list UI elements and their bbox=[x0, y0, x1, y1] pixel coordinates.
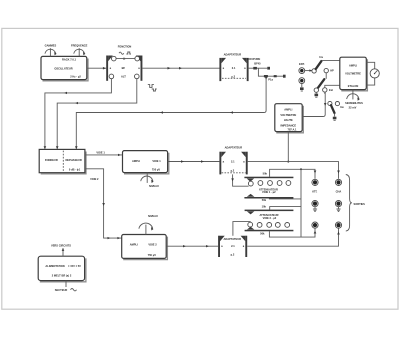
box AMPLI VOIE 1 shadow bbox=[124, 153, 169, 174]
switch S1 Inv bbox=[312, 55, 340, 73]
wire FONCTION output to ADAPTATEUR U3 bbox=[142, 67, 220, 70]
switch S3 Inv bbox=[328, 101, 345, 113]
connector block ADAPTATEUR U3 bbox=[219, 52, 248, 81]
attenuator 1 labels bbox=[259, 172, 278, 194]
switch circle HP bbox=[324, 68, 334, 78]
knob FREQUENCE bbox=[71, 43, 88, 56]
svg-text:± 15V ± 5V: ± 15V ± 5V bbox=[68, 264, 81, 268]
wire FONCTION BL to FONDEUR input 1 bbox=[44, 79, 112, 149]
wire AMPLI VOIE 2 output bbox=[166, 245, 218, 247]
attenuator 1 bar bbox=[244, 177, 293, 179]
knob NIVEAU 2 bbox=[139, 214, 158, 235]
connector ENT ground side bbox=[299, 78, 305, 84]
svg-text:VOIE 1: VOIE 1 bbox=[96, 150, 105, 154]
svg-text:ETALON: ETALON bbox=[348, 84, 359, 88]
ground below S2 bbox=[315, 92, 319, 97]
svg-text:VERS CIRCUITS: VERS CIRCUITS bbox=[51, 243, 71, 247]
svg-text:OSCILLATEUR: OSCILLATEUR bbox=[54, 66, 72, 70]
box AMPLI VOIE 2 bbox=[122, 235, 167, 259]
brace SORTIES bbox=[346, 175, 365, 232]
svg-text:10k: 10k bbox=[262, 204, 267, 208]
capacitor coupling COUPURE BF bbox=[247, 57, 270, 70]
output connector CHA row3 bbox=[335, 222, 341, 228]
wire haute impedance output to Ext bbox=[302, 92, 326, 116]
svg-text:ADAPTATEUR: ADAPTATEUR bbox=[224, 52, 242, 56]
attenuator 2 labels bbox=[259, 213, 278, 220]
svg-text:P1a: P1a bbox=[268, 78, 273, 82]
svg-text:HAUTE: HAUTE bbox=[284, 118, 293, 122]
attenuator 2 input triangle bbox=[247, 211, 255, 214]
knob GAMMES bbox=[45, 43, 57, 56]
svg-text:2 MELT BR (a) 2: 2 MELT BR (a) 2 bbox=[52, 274, 72, 278]
wire coupling branch to FONDEUR input 3 bbox=[75, 76, 266, 149]
attenuator 1 input triangle bbox=[247, 178, 255, 181]
attenuator 1 terminals bbox=[248, 181, 290, 186]
svg-text:SECTEUR: SECTEUR bbox=[55, 288, 68, 292]
svg-text:FONDEUR: FONDEUR bbox=[45, 158, 58, 162]
svg-text:FREQUENCE: FREQUENCE bbox=[71, 43, 88, 47]
attenuator 1 lower bar bbox=[244, 197, 293, 199]
svg-text:0 dB - ϕ1: 0 dB - ϕ1 bbox=[69, 168, 81, 172]
output connector CHA row2 bbox=[335, 201, 341, 207]
svg-text:NIVEAU: NIVEAU bbox=[148, 214, 158, 218]
svg-text:VOIE 2 - µ2: VOIE 2 - µ2 bbox=[263, 216, 277, 220]
svg-text:2.1: 2.1 bbox=[232, 66, 236, 70]
svg-text:IMPEDANCE: IMPEDANCE bbox=[281, 124, 297, 128]
svg-text:750 µV: 750 µV bbox=[152, 168, 161, 172]
box FONDEUR DEPHASEUR bbox=[39, 149, 85, 172]
wire branch to lower coupling bbox=[258, 68, 283, 80]
svg-text:AMPLI: AMPLI bbox=[132, 159, 140, 163]
svg-text:ATT.: ATT. bbox=[312, 190, 318, 194]
svg-text:ALIMENTATION: ALIMENTATION bbox=[45, 264, 64, 268]
wire haute impedance to node A bbox=[287, 132, 289, 162]
svg-text:Inv: Inv bbox=[319, 55, 323, 59]
attenuator 2 lower bar bbox=[245, 230, 294, 232]
connector block ADAPTATEUR U1 bbox=[219, 146, 247, 175]
wire ADAPTATEUR U2 to attenuator 2 input bbox=[233, 222, 250, 236]
svg-text:50k: 50k bbox=[262, 198, 267, 202]
svg-text:BF45: BF45 bbox=[254, 62, 261, 66]
svg-text:VOIE 1 - µ2: VOIE 1 - µ2 bbox=[262, 190, 276, 194]
box AMPLI VOIE 1 bbox=[123, 151, 168, 173]
svg-text:22 mV: 22 mV bbox=[349, 105, 357, 109]
svg-text:ADAPTATEUR: ADAPTATEUR bbox=[225, 146, 243, 150]
wire ENT to switch S1 bbox=[305, 69, 312, 71]
wire VOIE 2 bbox=[85, 169, 122, 240]
svg-text:AMPLI: AMPLI bbox=[349, 64, 357, 68]
wire ADAPTATEUR U1 output to CHA connector bbox=[248, 162, 340, 179]
svg-text:2.1: 2.1 bbox=[231, 244, 235, 248]
svg-text:Ext: Ext bbox=[329, 88, 333, 92]
svg-text:DEPHASEUR: DEPHASEUR bbox=[65, 158, 81, 162]
ground below ATT row2 bbox=[313, 207, 317, 212]
svg-text:µ.2: µ.2 bbox=[231, 252, 235, 256]
wire attenuator 1 lower bar to bus bbox=[269, 198, 301, 200]
junction node A bbox=[287, 161, 289, 163]
ground below ENT bbox=[300, 84, 304, 92]
svg-text:COUPURE: COUPURE bbox=[247, 57, 260, 61]
svg-text:VOIE 2: VOIE 2 bbox=[148, 242, 157, 246]
knob NIVEAU 1 bbox=[141, 173, 159, 188]
wire attenuator 1 tap to ATT connector bbox=[270, 169, 317, 178]
output connector CHA row1 bbox=[335, 179, 341, 185]
svg-text:FONCTION: FONCTION bbox=[118, 45, 132, 49]
attenuator 1 lower triangle bbox=[247, 194, 255, 197]
attenuator 2 terminals bbox=[248, 222, 290, 227]
ground below S3 bbox=[333, 114, 337, 121]
svg-text:ADAPTATEUR: ADAPTATEUR bbox=[224, 237, 242, 241]
wire VOIE 1 bbox=[85, 150, 123, 156]
wire bus vertical node B down bbox=[300, 169, 302, 237]
connector ENT input bbox=[299, 62, 305, 74]
svg-text:VOIE 1: VOIE 1 bbox=[152, 159, 161, 163]
svg-text:ENT.: ENT. bbox=[299, 62, 305, 66]
box AMPLI VOLTMETRE HAUTE IMPEDANCE shadow bbox=[276, 106, 303, 133]
svg-text:RACK 7.0.1: RACK 7.0.1 bbox=[62, 58, 77, 62]
square wave symbol bbox=[148, 85, 157, 91]
box ALIMENTATION shadow bbox=[40, 258, 86, 281]
svg-text:750 µV: 750 µV bbox=[148, 253, 157, 257]
wire ADAPTATEUR U2 output to CHA 2 connector bbox=[247, 229, 339, 247]
junction node B bbox=[300, 168, 302, 170]
svg-text:787 A.1: 787 A.1 bbox=[288, 128, 298, 132]
svg-text:µ.2: µ.2 bbox=[231, 168, 235, 172]
connector block ADAPTATEUR U2 bbox=[218, 236, 247, 257]
svg-text:VOLTMETRE: VOLTMETRE bbox=[280, 113, 296, 117]
output connector ATT row3 bbox=[312, 222, 318, 228]
oscillator OSC shadow bbox=[43, 59, 89, 81]
output connector ATT row1 bbox=[312, 179, 318, 185]
capacitor P1a bbox=[264, 75, 286, 82]
box ALIMENTATION bbox=[38, 256, 84, 280]
svg-text:ALT: ALT bbox=[121, 74, 126, 78]
wire VERS CIRCUITS bbox=[51, 243, 71, 256]
svg-text:50k: 50k bbox=[263, 172, 268, 176]
output connector ATT row2 bbox=[312, 201, 318, 207]
wire bus to attenuator 2 bar bbox=[270, 207, 301, 210]
svg-text:BF: BF bbox=[122, 66, 126, 70]
oscillator OSC bbox=[41, 56, 87, 79]
wire SECTEUR bbox=[55, 281, 77, 292]
galvanometer M1 wires bbox=[366, 62, 374, 85]
wire oscillator output to FONCTION bbox=[87, 67, 106, 70]
svg-text:CHA: CHA bbox=[336, 190, 342, 194]
box AMPLI VOLTMETRE ETALON bbox=[340, 57, 367, 89]
svg-text:µ.2: µ.2 bbox=[231, 74, 235, 78]
svg-text:AMPLI: AMPLI bbox=[284, 107, 292, 111]
box FONDEUR DEPHASEUR shadow bbox=[41, 152, 86, 174]
wire attenuator 2 tap to ATT 2 connector bbox=[269, 229, 316, 238]
svg-text:SENSIBILITES: SENSIBILITES bbox=[345, 101, 363, 105]
connector block FONCTION bbox=[106, 45, 142, 81]
wire ADAPTATEUR U1 to attenuator 1 input bbox=[231, 174, 248, 186]
wire FONCTION BR to FONDEUR input 2 bbox=[56, 79, 137, 149]
svg-text:50k: 50k bbox=[260, 232, 265, 236]
switch circle Ext bbox=[323, 85, 340, 94]
svg-text:HP: HP bbox=[330, 69, 334, 73]
box AMPLI VOIE 2 shadow bbox=[123, 237, 167, 260]
svg-text:VOLTMETRE: VOLTMETRE bbox=[345, 71, 361, 75]
attenuator 2 bar bbox=[245, 210, 294, 212]
svg-text:AMPLI: AMPLI bbox=[130, 242, 138, 246]
svg-text:2.1: 2.1 bbox=[231, 160, 235, 164]
knob SENSIBILITES bbox=[345, 90, 363, 110]
svg-text:GAMMES: GAMMES bbox=[45, 43, 57, 47]
box AMPLI VOLTMETRE ETALON shadow bbox=[341, 59, 367, 91]
attenuator 2 lower triangle bbox=[247, 227, 255, 230]
svg-text:VOIE 2: VOIE 2 bbox=[90, 177, 99, 181]
svg-text:NIVEAU: NIVEAU bbox=[149, 184, 159, 188]
switch S2 bbox=[314, 79, 324, 92]
svg-text:2 Hz - µ2: 2 Hz - µ2 bbox=[70, 75, 81, 79]
svg-text:SORTIES: SORTIES bbox=[354, 202, 366, 206]
box AMPLI VOLTMETRE HAUTE IMPEDANCE bbox=[275, 104, 302, 132]
svg-text:Inv: Inv bbox=[340, 105, 344, 109]
galvanometer M1 bbox=[370, 69, 379, 78]
ground below CHA row2 bbox=[336, 207, 340, 212]
wire AMPLI VOIE 1 output bbox=[168, 160, 220, 162]
